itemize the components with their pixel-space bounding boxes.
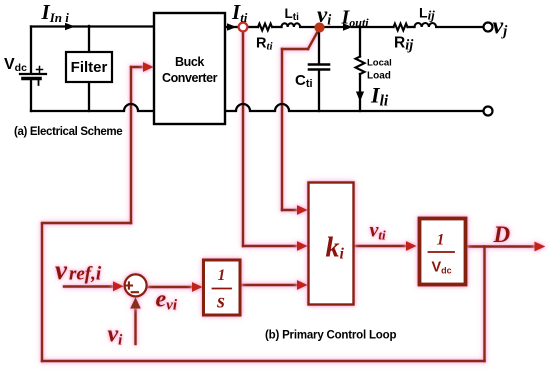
integrator fraction bar [213,288,232,290]
wire: feedback horizontal toward buck column [42,222,131,224]
battery long plate [20,73,46,75]
node v_i (red dot) [315,23,324,32]
svg-text:vi: vi [108,322,124,349]
wire: top from source [31,25,154,27]
resistor R_ti [258,24,272,31]
wire: local load top lead [359,27,361,57]
wire: v_i node to load branch [323,26,342,28]
minus sign in summing junction [132,291,138,293]
wire: left vertical below battery [30,79,32,111]
svg-text:Converter: Converter [162,71,218,85]
svg-text:Lij: Lij [419,5,435,23]
svg-text:evi: evi [156,287,178,314]
wire: v_i input rise to summing junction [134,308,136,344]
battery minus tick [38,81,40,86]
wire: left feedback rise [41,224,43,361]
wire: L_ti to v_i node [300,26,315,28]
wire: v_ref input [64,285,114,287]
summing junction circle [125,274,147,296]
svg-text:vti: vti [370,220,387,243]
wire: D feedback branch down from D line [483,247,485,362]
inductor L_ij [415,23,437,27]
svg-text:Iouti: Iouti [341,7,370,30]
wire: bottom left with hop over duty line [31,104,154,111]
svg-text:Filter: Filter [71,59,108,76]
wire: v_i sense diagonal from node [308,30,319,49]
wire: v_i sense horizontal [282,48,308,50]
wire: filter bottom connection [88,82,90,111]
wire: C_ti bottom lead [318,71,320,112]
arrowhead I_ti into ki [297,241,308,251]
svg-text:1: 1 [437,232,445,249]
svg-text:Ili: Ili [370,83,389,110]
arrowhead v_i sense into ki [297,205,308,215]
local load resistor (vertical) [356,57,365,75]
arrowhead into buck converter [143,62,154,72]
wire: C_ti top lead [318,31,320,64]
node I_ti (red ring) [239,23,248,32]
wire: bottom feedback run [42,360,485,362]
wire: left vertical above battery [30,27,32,74]
divider box 1/Vdc [420,219,466,285]
arrow I_outi [343,23,353,30]
battery plus sign [37,67,43,73]
svg-text:Vdc: Vdc [4,56,27,74]
arrowhead integrator output into ki [297,280,308,290]
arrowhead v_i into summing junction [130,297,141,308]
inductor L_ti [282,23,301,27]
wire: L_ij to terminal v_j [436,26,483,28]
capacitor C_ti plates [309,63,329,66]
wire: R_ij to L_ij [408,26,415,28]
wire: ki output v_ti [354,245,409,247]
wire: duty-cycle into buck converter [131,66,145,68]
resistor R_ij [394,24,408,31]
svg-text:(a) Electrical Scheme: (a) Electrical Scheme [14,126,122,138]
svg-text:Iti: Iti [231,0,248,25]
svg-text:1: 1 [218,267,226,284]
wire: integrator output to ki [240,284,299,286]
arrowhead D output [535,242,546,252]
wire: filter top connection [88,26,90,52]
svg-text:Load: Load [367,71,391,82]
wire: v_i sense into ki [282,209,299,211]
battery short plate [23,77,40,81]
gain box ki [309,183,354,305]
arrow I_li down [356,92,364,102]
terminal v_j (top) [484,23,493,32]
wire: v_i sense drop [281,49,283,210]
svg-text:Rti: Rti [256,36,274,53]
wire: main line to R_ij [352,26,394,28]
svg-text:vi: vi [317,2,331,29]
arrowhead v_ti into 1/Vdc box [406,241,417,251]
filter box [66,52,112,82]
wire: duty-cycle rise to buck converter [130,67,132,223]
buck converter box [154,13,225,124]
wire: I_ti sense drop [242,31,244,246]
arrow buck output [227,23,237,30]
arrowhead e_vi into 1/s box [192,282,203,292]
svg-text:vref,i: vref,i [55,255,102,285]
svg-text:Cti: Cti [295,72,313,90]
svg-text:Local: Local [367,58,392,69]
arrowhead v_ref into summing junction [113,281,124,291]
wire: error e_vi to integrator [147,286,194,288]
svg-text:D: D [493,222,511,247]
svg-text:Rij: Rij [394,35,414,54]
integrator box 1/s [204,260,241,315]
terminal (bottom right) [484,107,493,116]
plus sign in summing junction [126,282,132,288]
wire: local load bottom lead [359,74,361,111]
wire: R_ti to L_ti [273,26,282,28]
wire: buck output [225,26,237,28]
svg-text:IIn i: IIn i [41,0,70,25]
svg-text:vj: vj [493,14,509,40]
svg-text:s: s [216,291,225,313]
svg-text:Lti: Lti [285,6,300,23]
svg-text:(b) Primary Control Loop: (b) Primary Control Loop [265,330,396,342]
wire: bottom right with hops over sense lines [225,104,483,111]
svg-text:Buck: Buck [175,55,204,69]
wire: I_ti sense into ki [243,245,299,247]
wire: I_ti node to R_ti [248,26,259,28]
wire: D output [466,245,538,247]
divider fraction bar [429,251,455,253]
arrow I_In on top wire [65,23,75,30]
